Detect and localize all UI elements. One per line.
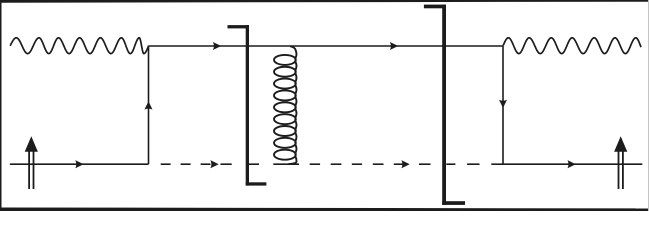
eikonal line bottom left solid <box>10 163 149 165</box>
cut bracket right (vertical bar) <box>442 5 446 205</box>
gluon coil rings <box>274 55 296 160</box>
cut bracket right (bottom foot) <box>442 201 465 205</box>
cut bracket left (top arm) <box>228 25 250 28</box>
arrow on bottom left line <box>75 160 83 168</box>
hadron momentum double arrow left <box>28 148 30 189</box>
arrow on top line (right) <box>390 42 398 50</box>
arrow on top line (left) <box>213 42 221 50</box>
frame left border <box>0 0 2 211</box>
cut bracket left (vertical bar) <box>246 25 249 186</box>
arrow down on right vertical <box>499 100 507 108</box>
arrow up on left vertical <box>144 101 152 109</box>
frame bottom border <box>0 208 649 212</box>
arrow on dashed line (right) <box>401 160 409 168</box>
hadron momentum double arrow right <box>618 148 620 189</box>
quark line top (horizontal) <box>149 45 504 47</box>
eikonal line bottom right solid <box>503 163 642 165</box>
cut bracket right (top arm) <box>424 5 446 9</box>
eikonal dashed line bottom center <box>161 163 503 165</box>
gluon coil backbone <box>288 46 296 164</box>
arrow on bottom right line <box>568 160 576 168</box>
quark line right vertical <box>502 46 504 164</box>
frame right border <box>648 0 649 211</box>
photon wavy right <box>503 38 641 54</box>
frame top border <box>0 0 649 3</box>
arrow on dashed line (left) <box>210 160 218 168</box>
quark line left vertical <box>148 46 150 164</box>
cut bracket left (bottom foot) <box>246 182 267 185</box>
photon wavy left <box>10 38 148 54</box>
